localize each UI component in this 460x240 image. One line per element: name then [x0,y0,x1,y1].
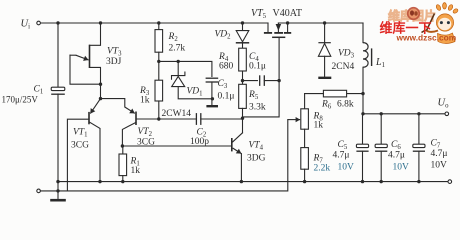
svg-text:4.7μ: 4.7μ [388,151,405,161]
svg-text:1k: 1k [314,121,324,131]
svg-text:4.7μ: 4.7μ [333,151,350,161]
svg-text:10V: 10V [393,163,410,173]
svg-text:V40AT: V40AT [273,8,302,19]
svg-text:10V: 10V [431,161,448,171]
svg-text:3DJ: 3DJ [106,57,122,67]
svg-text:0.1μ: 0.1μ [249,61,266,71]
svg-text:2CN4: 2CN4 [332,62,355,72]
svg-text:3CG: 3CG [137,138,155,148]
svg-text:1k: 1k [131,166,141,176]
svg-text:170μ/25V: 170μ/25V [2,95,39,105]
svg-text:www.dzsc.com: www.dzsc.com [396,33,457,43]
svg-text:6.8k: 6.8k [337,100,354,110]
svg-text:2CW14: 2CW14 [162,109,192,119]
svg-text:680: 680 [219,61,234,71]
svg-text:10V: 10V [338,163,355,173]
svg-text:1k: 1k [140,96,150,106]
svg-text:2.7k: 2.7k [169,44,186,54]
svg-text:3CG: 3CG [71,141,89,151]
svg-text:100p: 100p [190,137,209,147]
svg-text:3DG: 3DG [247,154,266,164]
svg-text:4.7μ: 4.7μ [431,149,448,159]
svg-text:2.2k: 2.2k [314,164,331,174]
svg-text:3.3k: 3.3k [249,103,266,113]
svg-text:0.1μ: 0.1μ [218,92,235,102]
